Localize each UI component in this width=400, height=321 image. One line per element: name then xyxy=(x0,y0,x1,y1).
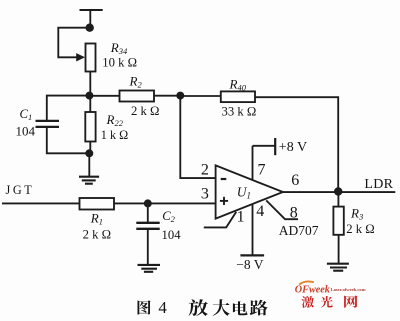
svg-text:2 k Ω: 2 k Ω xyxy=(131,104,159,118)
svg-text:10 k Ω: 10 k Ω xyxy=(102,55,137,69)
svg-text:JGT: JGT xyxy=(6,183,35,197)
wire xyxy=(89,96,91,112)
wiper arrow of R34 xyxy=(76,53,85,61)
svg-text:2 k Ω: 2 k Ω xyxy=(83,228,111,242)
svg-text:4: 4 xyxy=(158,298,167,317)
wire: output pin 6 to LDR xyxy=(283,191,395,193)
resistor R2 xyxy=(120,91,155,102)
resistor R22 xyxy=(85,112,95,142)
op-amp minus sign xyxy=(221,178,227,180)
wire: pin 1 stub xyxy=(204,212,236,228)
wire xyxy=(337,192,339,207)
svg-text:2: 2 xyxy=(201,162,209,179)
wire xyxy=(338,235,340,263)
wire: pin 7 to +8V xyxy=(253,145,276,147)
wire: pin 7 / pin 4 supply line xyxy=(252,146,254,255)
wire xyxy=(147,203,149,222)
op-amp plus sign xyxy=(220,197,228,205)
wire xyxy=(180,95,221,97)
resistor R40 xyxy=(221,91,255,102)
wire xyxy=(47,128,89,153)
resistor R34 (potentiometer) xyxy=(86,44,96,72)
wire: feedback to output node xyxy=(255,97,338,191)
svg-text:104: 104 xyxy=(162,228,182,242)
watermark: laser net (red) xyxy=(302,295,358,307)
svg-text:+8 V: +8 V xyxy=(279,140,307,155)
svg-text:−8 V: −8 V xyxy=(236,257,263,272)
wire xyxy=(2,202,80,204)
ground (below C2) xyxy=(138,265,161,272)
svg-text:4: 4 xyxy=(256,203,264,220)
wire xyxy=(89,95,119,97)
ground (below R22) xyxy=(79,177,99,184)
svg-text:Laser.ofweek.com: Laser.ofweek.com xyxy=(331,287,366,292)
svg-text:3: 3 xyxy=(201,186,209,203)
svg-text:8: 8 xyxy=(290,204,298,221)
node: top junction xyxy=(86,24,94,32)
wire: pin 8 stub xyxy=(266,200,298,219)
-8V terminal bar xyxy=(240,254,264,256)
svg-text:7: 7 xyxy=(258,161,266,178)
wire xyxy=(147,230,149,264)
wire xyxy=(89,72,91,96)
capacitor C1 xyxy=(36,120,60,122)
svg-text:2 k Ω: 2 k Ω xyxy=(346,222,374,236)
wire xyxy=(114,202,216,204)
op-amp U1 xyxy=(216,165,283,218)
node: output junction xyxy=(334,187,342,195)
svg-text:AD707: AD707 xyxy=(279,223,319,238)
svg-text:33 k Ω: 33 k Ω xyxy=(222,105,257,119)
resistor R1 xyxy=(80,198,115,210)
node: R22/C1 bottom junction xyxy=(85,149,93,157)
OFweek logo xyxy=(295,281,366,295)
wire xyxy=(88,153,90,176)
wire xyxy=(154,95,180,97)
wire: to pin 2 xyxy=(180,96,215,179)
svg-text:104: 104 xyxy=(16,124,36,139)
wire xyxy=(89,142,91,154)
wire xyxy=(47,96,90,120)
svg-text:6: 6 xyxy=(291,172,299,189)
wire: wiper feedback loop xyxy=(58,28,89,58)
ground (below R3) xyxy=(327,264,349,271)
capacitor C2 xyxy=(136,222,159,224)
caption: figure 4 amplifier circuit xyxy=(138,298,268,317)
svg-text:1 k Ω: 1 k Ω xyxy=(101,128,128,142)
svg-text:1: 1 xyxy=(237,209,245,226)
resistor R3 xyxy=(333,207,343,235)
node: R1/C2/pin3 junction xyxy=(144,199,152,207)
+8V terminal bar xyxy=(274,138,276,155)
power rail V+ xyxy=(80,9,103,11)
node: R2/R40/pin2 junction xyxy=(176,92,184,100)
node: R34/R22/R2/C1 junction xyxy=(85,92,93,100)
wire xyxy=(89,10,91,28)
svg-text:OFweek: OFweek xyxy=(295,285,331,296)
svg-text:LDR: LDR xyxy=(364,177,393,192)
